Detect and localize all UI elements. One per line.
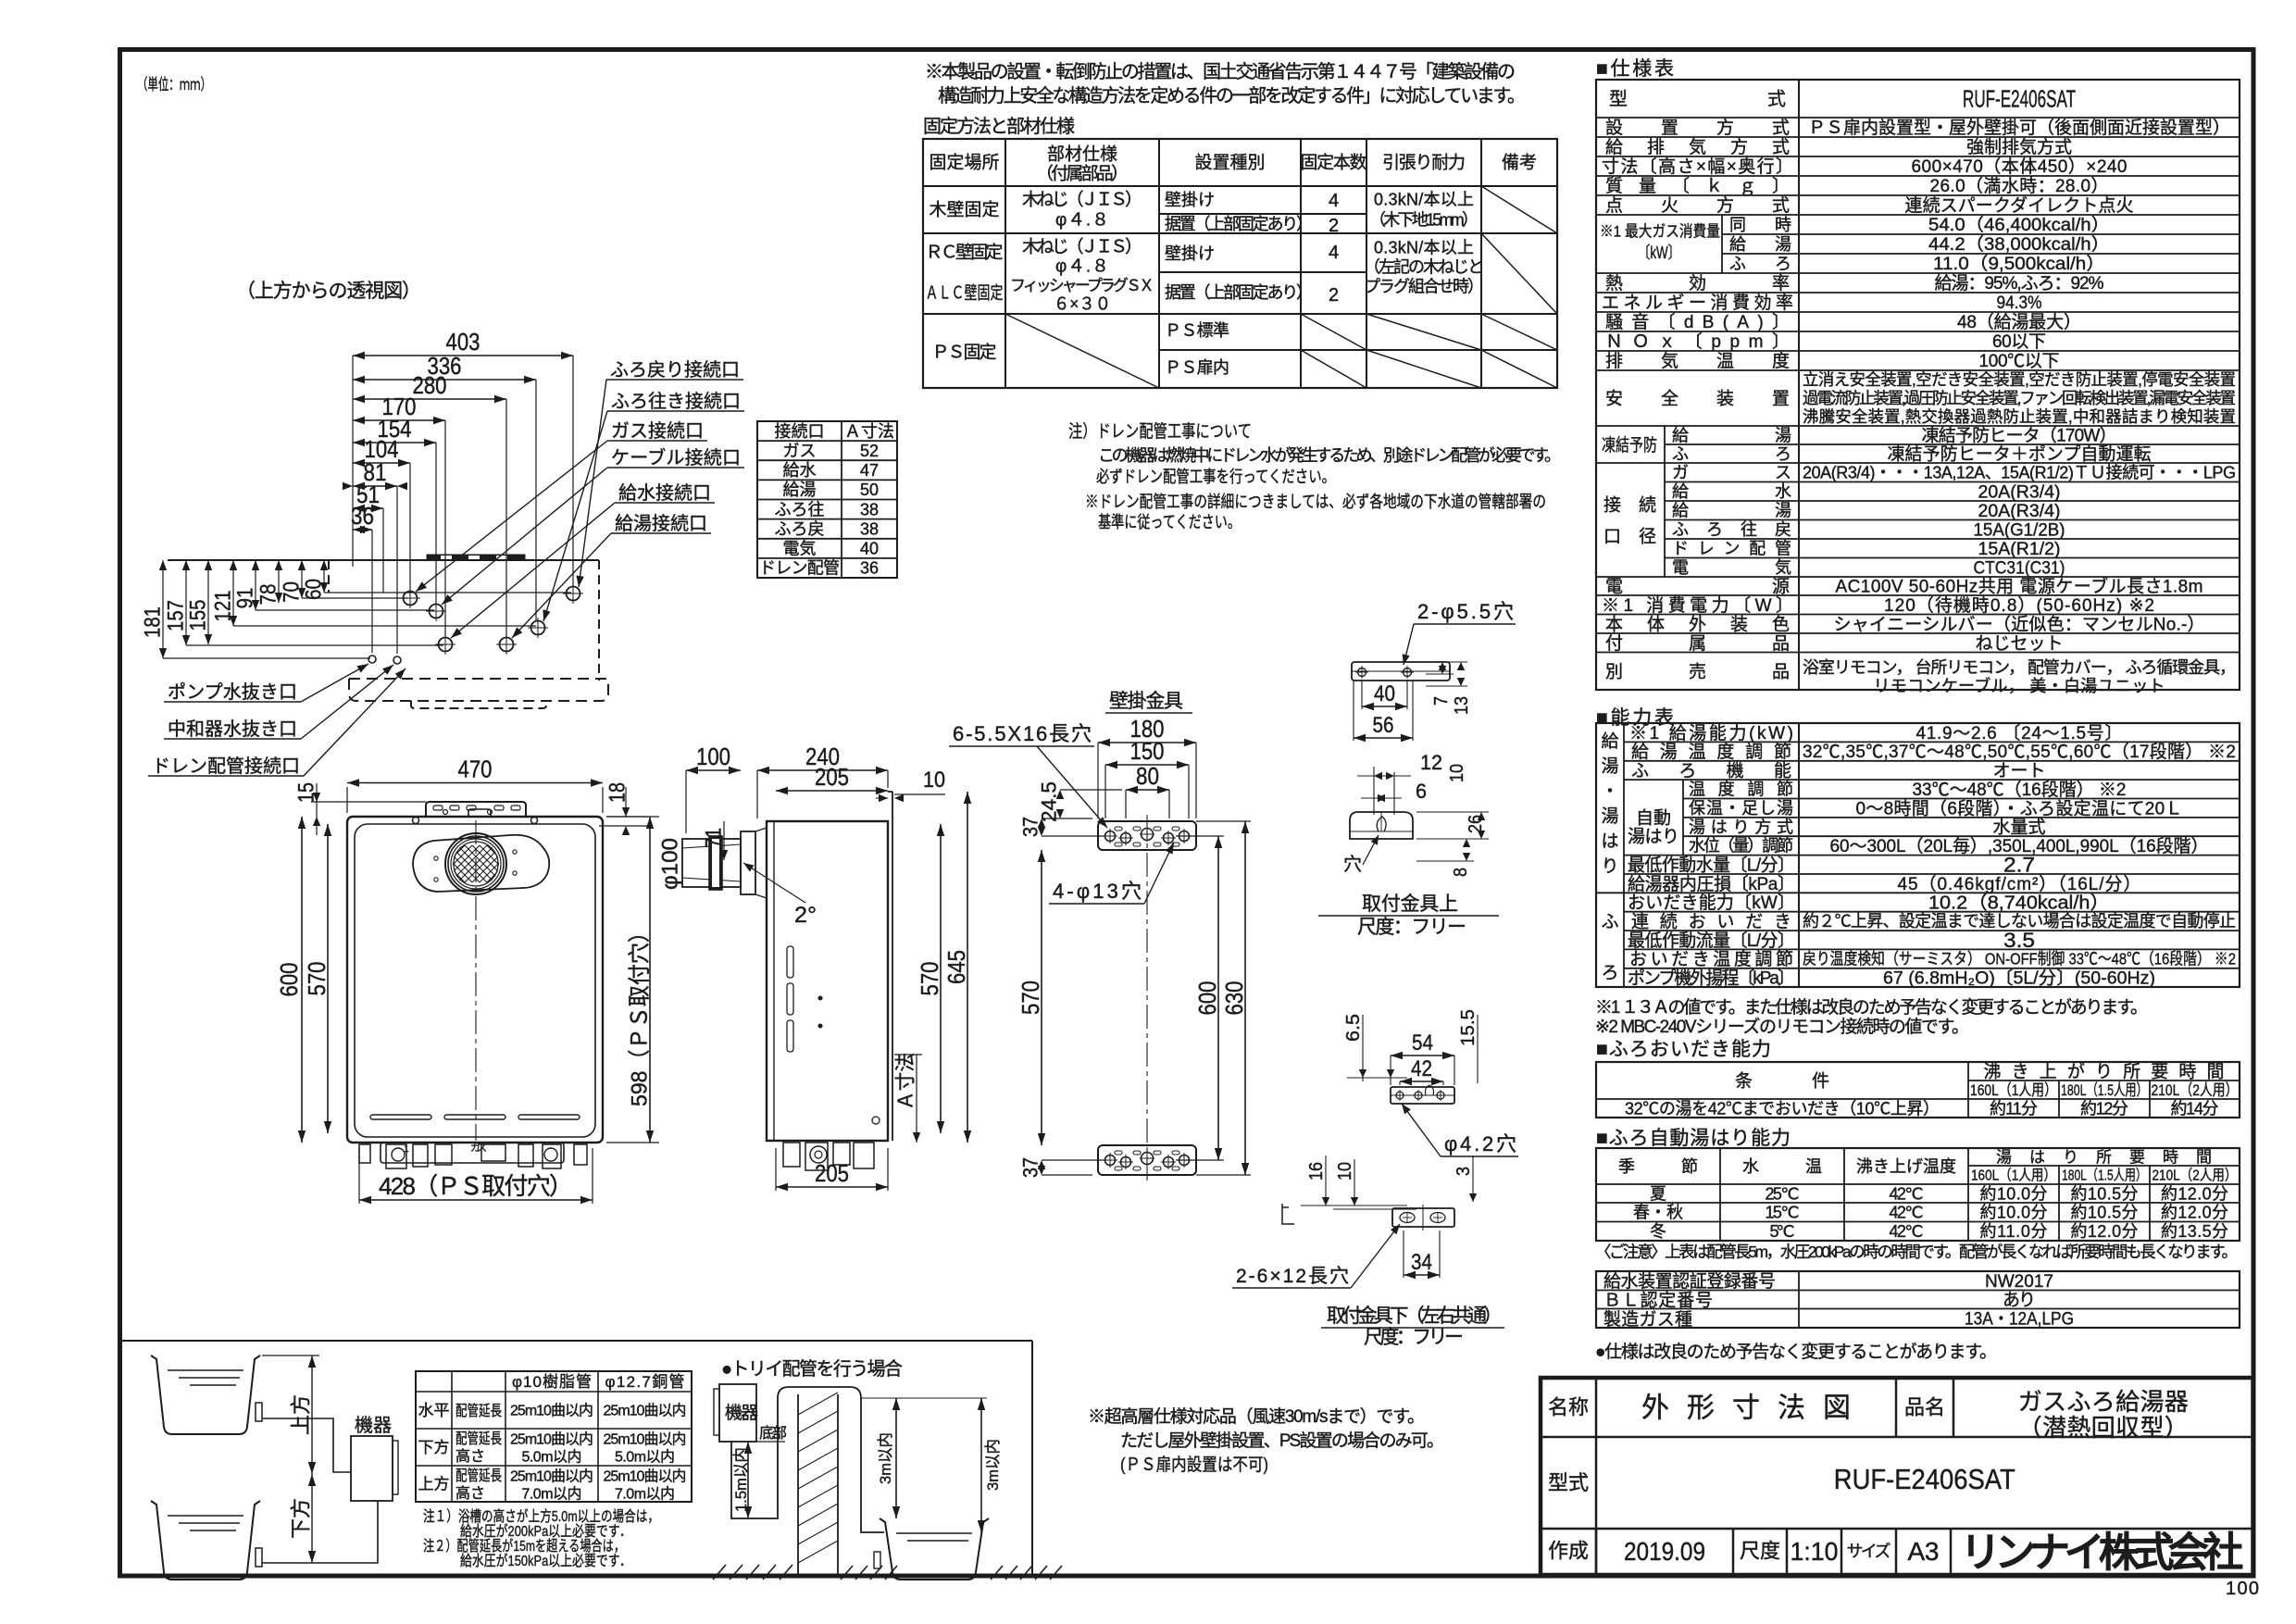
svg-text:94.3%: 94.3% (1997, 294, 2042, 313)
upper tub (上方) (151, 1355, 260, 1434)
svg-text:2: 2 (1329, 285, 1339, 306)
svg-text:設置種別: 設置種別 (1195, 153, 1266, 173)
svg-text:42℃: 42℃ (1890, 1222, 1924, 1241)
svg-text:〈ご注意〉上表は配管長5m，水圧200kPaの時の時間です。: 〈ご注意〉上表は配管長5m，水圧200kPaの時の時間です。配管が長くなれば所要… (1595, 1243, 2238, 1261)
svg-text:最低作動水量〔L/分〕: 最低作動水量〔L/分〕 (1628, 855, 1795, 875)
dim 8 (piece2) (1416, 860, 1474, 862)
svg-text:オート: オート (1993, 762, 2046, 781)
svg-text:温度調節: 温度調節 (1689, 781, 1793, 799)
horizontal dimension 104 (409, 463, 411, 592)
svg-text:給湯: 給湯 (783, 481, 817, 499)
svg-text:40: 40 (1374, 681, 1395, 706)
svg-text:47: 47 (860, 461, 879, 480)
wall bracket dim 180 (1097, 743, 1099, 818)
svg-text:電源: 電源 (1605, 577, 1790, 597)
svg-text:リンナイ株式会社: リンナイ株式会社 (1960, 1530, 2243, 1575)
svg-text:205: 205 (815, 1159, 849, 1187)
svg-text:48（給湯最大）: 48（給湯最大） (1957, 312, 2081, 332)
svg-text:15℃: 15℃ (1766, 1204, 1800, 1222)
svg-text:作成: 作成 (1548, 1540, 1589, 1563)
svg-text:570: 570 (303, 962, 331, 996)
svg-text:給水接続口: 給水接続口 (618, 482, 711, 504)
svg-text:沸騰安全装置,熱交換器過熱防止装置,中和器詰まり検知装置: 沸騰安全装置,熱交換器過熱防止装置,中和器詰まり検知装置 (1803, 407, 2236, 426)
wall bracket dim 37 bottom (1042, 1159, 1104, 1161)
svg-text:給湯温度調節: 給湯温度調節 (1631, 742, 1791, 762)
svg-text:ＰＳ扉内設置型・屋外壁掛可（後面側面近接設置型）: ＰＳ扉内設置型・屋外壁掛可（後面側面近接設置型） (1808, 118, 2230, 138)
svg-text:別売品: 別売品 (1605, 661, 1790, 681)
svg-text:ＲＣ壁固定: ＲＣ壁固定 (926, 243, 1004, 263)
svg-text:木壁固定: 木壁固定 (930, 200, 1000, 220)
svg-text:据置（上部固定あり）: 据置（上部固定あり） (1165, 215, 1313, 233)
upper fitting piece (取付金具上 part1) (1352, 662, 1450, 681)
svg-text:60以下: 60以下 (1992, 332, 2046, 352)
svg-text:約10.0分: 約10.0分 (1980, 1204, 2048, 1222)
svg-text:※1 １３Ａの値です。また仕様は改良のため予告なく変更するこ: ※1 １３Ａの値です。また仕様は改良のため予告なく変更することがあります。 (1595, 997, 2148, 1018)
svg-text:91: 91 (232, 588, 257, 609)
wall bracket bottom plate (1098, 1145, 1196, 1175)
svg-text:立消え安全装置,空だき安全装置,空だき防止装置,停電安全装置: 立消え安全装置,空だき安全装置,空だき防止装置,停電安全装置 (1803, 370, 2236, 389)
side dim 570 (A) (940, 824, 942, 1133)
svg-text:157: 157 (163, 600, 188, 631)
svg-text:38: 38 (860, 520, 879, 539)
svg-text:上方: 上方 (418, 1476, 450, 1493)
svg-text:37: 37 (1019, 1157, 1042, 1178)
three bottom slots (370, 1115, 431, 1119)
svg-text:外形寸法図: 外形寸法図 (1641, 1393, 1851, 1424)
svg-text:2-φ5.5穴: 2-φ5.5穴 (1417, 600, 1514, 623)
svg-text:構造耐力上安全な構造方法を定める件の一部を改定する件」に対応: 構造耐力上安全な構造方法を定める件の一部を改定する件」に対応しています。 (938, 85, 1526, 106)
svg-text:点火方式: 点火方式 (1605, 195, 1790, 216)
svg-text:2: 2 (1329, 216, 1339, 236)
svg-text:71: 71 (701, 828, 726, 848)
svg-text:給排気方式: 給排気方式 (1605, 137, 1790, 157)
connection ports (circles) (404, 592, 418, 606)
svg-text:ＰＳ標準: ＰＳ標準 (1165, 321, 1229, 340)
svg-text:42℃: 42℃ (1890, 1204, 1924, 1222)
svg-text:36: 36 (860, 559, 879, 578)
svg-text:保温・足し湯: 保温・足し湯 (1689, 799, 1793, 818)
svg-text:質量〔ｋｇ〕: 質量〔ｋｇ〕 (1605, 176, 1790, 196)
svg-text:固定方法と部材仕様: 固定方法と部材仕様 (923, 116, 1075, 137)
svg-text:70: 70 (279, 581, 304, 603)
wall bracket dim 24.5 (1060, 789, 1122, 791)
svg-text:あり: あり (2003, 1291, 2036, 1310)
svg-text:木ねじ（ＪＩＳ）: 木ねじ（ＪＩＳ） (1022, 190, 1142, 210)
svg-text:1: 1 (404, 1144, 409, 1155)
registration number table (1596, 1271, 2240, 1328)
svg-text:水量式: 水量式 (1993, 818, 2046, 838)
horizontal dimension 280 (505, 399, 507, 638)
dim 54 (1390, 1056, 1391, 1085)
dim 12 (piece2) (1373, 767, 1375, 815)
bottom section separator line (120, 1340, 1032, 1342)
svg-text:約11.0分: 約11.0分 (1980, 1222, 2048, 1241)
svg-text:配管延長: 配管延長 (455, 1403, 502, 1419)
svg-text:部材仕様: 部材仕様 (1047, 144, 1117, 165)
svg-text:0～8時間（6段階）・ふろ設定温にて20Ｌ: 0～8時間（6段階）・ふろ設定温にて20Ｌ (1856, 798, 2183, 818)
svg-text:り: り (1601, 857, 1618, 877)
svg-text:NW2017: NW2017 (1985, 1272, 2053, 1292)
svg-text:121: 121 (210, 591, 235, 622)
torii tub right (880, 1518, 989, 1580)
side view exhaust pipe (682, 839, 741, 887)
wall bracket dim 570 left (1041, 850, 1042, 1145)
svg-text:ケーブル接続口: ケーブル接続口 (611, 446, 741, 468)
svg-text:0.3kN/本以上: 0.3kN/本以上 (1374, 238, 1474, 256)
svg-text:ポンプ機外揚程〔kPa〕: ポンプ機外揚程〔kPa〕 (1628, 968, 1795, 989)
left vertical dimension stack 181/157/155/121/91/78/70/60 (162, 560, 164, 658)
horizontal dimension 170 (444, 420, 446, 638)
svg-text:10: 10 (923, 768, 945, 793)
svg-text:RUF-E2406SAT: RUF-E2406SAT (1834, 1463, 2015, 1495)
svg-text:80: 80 (1136, 762, 1159, 790)
svg-text:型式: 型式 (1548, 1471, 1589, 1494)
svg-text:54: 54 (1412, 1031, 1433, 1056)
extension lines from ports to left dims (163, 657, 370, 659)
svg-text:50: 50 (860, 481, 879, 499)
svg-text:約12分: 約12分 (2080, 1099, 2128, 1118)
svg-text:78: 78 (256, 584, 281, 606)
svg-text:10: 10 (1335, 1162, 1355, 1181)
svg-text:4-φ13穴: 4-φ13穴 (1053, 880, 1142, 903)
svg-text:湯はり方式: 湯はり方式 (1689, 818, 1793, 836)
front dim 570 (327, 824, 329, 1133)
svg-text:45（0.46kgf/cm²）（16L/分）: 45（0.46kgf/cm²）（16L/分） (1898, 874, 2141, 894)
svg-text:品名: 品名 (1904, 1396, 1945, 1419)
svg-text:ガス: ガス (1672, 464, 1791, 482)
svg-text:この機器は燃焼中にドレン水が発生するため、別途ドレン配管が必: この機器は燃焼中にドレン水が発生するため、別途ドレン配管が必要です。 (1098, 446, 1561, 465)
svg-text:4: 4 (1329, 243, 1339, 263)
svg-text:底部: 底部 (759, 1425, 787, 1442)
svg-text:ガス: ガス (783, 442, 817, 460)
svg-text:600: 600 (275, 963, 303, 997)
dim 42 (1399, 1081, 1401, 1085)
side view body (767, 821, 888, 1141)
svg-text:3m以内: 3m以内 (877, 1432, 894, 1484)
svg-text:●仕様は改良のため予告なく変更することがあります。: ●仕様は改良のため予告なく変更することがあります。 (1595, 1342, 1997, 1362)
svg-text:高さ: 高さ (455, 1448, 485, 1465)
pipe from upper tub to unit (262, 1418, 351, 1472)
svg-text:フィッシャープラグＳＸ: フィッシャープラグＳＸ (1010, 277, 1154, 294)
svg-text:38: 38 (860, 500, 879, 518)
svg-text:ふろ往戻: ふろ往戻 (1672, 520, 1791, 539)
svg-text:100℃以下: 100℃以下 (1979, 352, 2060, 371)
svg-text:52: 52 (860, 442, 879, 460)
lower piece 1 (1391, 1087, 1454, 1104)
svg-text:湯: 湯 (1601, 806, 1618, 827)
svg-text:注）ドレン配管工事について: 注）ドレン配管工事について (1068, 421, 1252, 442)
svg-text:ガス接続口: ガス接続口 (611, 420, 704, 442)
svg-text:600×470（本体450）×240: 600×470（本体450）×240 (1912, 156, 2128, 177)
svg-text:36: 36 (351, 502, 374, 530)
svg-text:高さ: 高さ (455, 1485, 485, 1502)
front top corner screws (413, 818, 419, 824)
horizontal dimension 81 (396, 486, 398, 654)
svg-text:径: 径 (1639, 527, 1656, 547)
svg-text:下方: 下方 (418, 1439, 450, 1456)
svg-text:〔kW〕: 〔kW〕 (1638, 244, 1680, 262)
bath auto-fill capacity table (1596, 1148, 2240, 1241)
svg-text:給: 給 (1601, 731, 1618, 752)
top view unit outline (dashed) (168, 559, 599, 561)
svg-text:ふろ機能: ふろ機能 (1631, 761, 1791, 781)
lower fitting piece (取付金具上 part2) (1350, 812, 1413, 839)
svg-text:戻り温度検知（サーミスタ） ON-OFF制御 33℃～4: 戻り温度検知（サーミスタ） ON-OFF制御 33℃～48℃（16段階） ※2 (1803, 950, 2236, 968)
svg-text:φ12.7銅管: φ12.7銅管 (605, 1373, 685, 1391)
horizontal dimension 154 (435, 443, 437, 605)
svg-text:必ずドレン配管工事を行ってください。: 必ずドレン配管工事を行ってください。 (1096, 468, 1335, 486)
svg-text:180L（1.5人用）: 180L（1.5人用） (2062, 1168, 2147, 1184)
svg-text:100: 100 (696, 743, 730, 770)
svg-text:25m10曲以内: 25m10曲以内 (510, 1403, 593, 1419)
svg-text:180L（1.5人用）: 180L（1.5人用） (2061, 1081, 2148, 1099)
svg-text:ただし屋外壁掛設置、PS設置の場合のみ可。: ただし屋外壁掛設置、PS設置の場合のみ可。 (1120, 1430, 1444, 1451)
svg-text:56: 56 (1373, 713, 1394, 738)
svg-text:※ドレン配管工事の詳細につきましては、必ず各地域の下水道の管: ※ドレン配管工事の詳細につきましては、必ず各地域の下水道の管轄部署の (1085, 493, 1546, 511)
svg-text:7.0m以内: 7.0m以内 (615, 1486, 675, 1503)
svg-text:湯はり: 湯はり (1628, 827, 1679, 847)
top mounting bracket (black) (427, 555, 525, 560)
svg-text:電気: 電気 (1672, 558, 1791, 577)
svg-text:給湯: 給湯 (1672, 426, 1791, 444)
lower tub (下方) (151, 1501, 260, 1580)
spec table 仕様表 (1596, 80, 2240, 690)
svg-text:60: 60 (301, 579, 326, 600)
svg-text:8: 8 (1451, 868, 1471, 877)
svg-text:６×３０: ６×３０ (1054, 295, 1111, 315)
svg-text:0.3kN/本以上: 0.3kN/本以上 (1374, 190, 1474, 208)
svg-text:給湯: 給湯 (1729, 235, 1791, 254)
svg-text:基準に従ってください。: 基準に従ってください。 (1098, 513, 1241, 531)
svg-text:湯はり所要時間: 湯はり所要時間 (1996, 1149, 2212, 1167)
svg-text:最低作動流量〔L/分〕: 最低作動流量〔L/分〕 (1628, 931, 1795, 951)
svg-text:67 (6.8mH₂O)〔5L/分〕(50-60Hz): 67 (6.8mH₂O)〔5L/分〕(50-60Hz) (1883, 968, 2155, 989)
svg-text:下方: 下方 (290, 1498, 313, 1539)
svg-text:注１）浴槽の高さが上方5.0m以上の場合は，: 注１）浴槽の高さが上方5.0m以上の場合は， (423, 1508, 659, 1525)
svg-text:湯: 湯 (1601, 756, 1618, 777)
svg-text:ドレン配管: ドレン配管 (1672, 540, 1791, 558)
svg-text:※2 MBC-240Vシリーズのリモコン接続時の値です。: ※2 MBC-240Vシリーズのリモコン接続時の値です。 (1595, 1017, 1969, 1037)
svg-text:付属品: 付属品 (1605, 633, 1790, 654)
svg-text:600: 600 (1193, 981, 1221, 1016)
svg-text:は: は (1601, 832, 1618, 852)
fan ornament outline (eye shape) (413, 835, 549, 892)
svg-text:水温: 水温 (1742, 1157, 1822, 1176)
svg-text:シャイニーシルバー（近似色：マンセルNo.-）: シャイニーシルバー（近似色：マンセルNo.-） (1834, 614, 2205, 634)
svg-text:280: 280 (413, 371, 447, 399)
svg-text:(ＰＳ扉内設置は不可): (ＰＳ扉内設置は不可) (1120, 1455, 1268, 1475)
svg-text:ふろ戻: ふろ戻 (775, 520, 825, 539)
svg-text:プラグ組合せ時）: プラグ組合せ時） (1364, 277, 1484, 295)
svg-text:安全装置: 安全装置 (1605, 389, 1790, 409)
svg-text:630: 630 (1220, 981, 1248, 1016)
front dim 598 PS取付穴 (606, 816, 659, 818)
svg-text:木ねじ（ＪＩＳ）: 木ねじ（ＪＩＳ） (1022, 237, 1142, 257)
svg-text:18: 18 (605, 782, 630, 803)
svg-text:※1 消費電力〔W〕: ※1 消費電力〔W〕 (1602, 595, 1793, 616)
side dim 71 (723, 821, 725, 860)
svg-text:季節: 季節 (1618, 1157, 1698, 1176)
side view bottom pipes (783, 1143, 800, 1167)
fan grill crosshatch (413, 845, 539, 882)
svg-text:570: 570 (1017, 981, 1044, 1015)
svg-text:尺度：フリー: 尺度：フリー (1357, 917, 1466, 938)
wall bracket dim 80 (1125, 790, 1127, 818)
dim 40 (piece1) (1361, 681, 1363, 709)
svg-text:ドレン配管接続口: ドレン配管接続口 (152, 756, 300, 777)
side view small dots (818, 996, 822, 1000)
svg-text:接: 接 (1603, 495, 1621, 516)
svg-text:配管延長: 配管延長 (455, 1430, 502, 1447)
svg-text:■仕様表: ■仕様表 (1596, 58, 1674, 80)
svg-text:尺度: 尺度 (1740, 1540, 1780, 1563)
arrows around lower piece1 (1387, 1069, 1394, 1078)
wall bracket dim 600 (1176, 835, 1224, 837)
svg-text:凍結予防ヒータ（170W）: 凍結予防ヒータ（170W） (1922, 426, 2117, 446)
svg-text:約12.0分: 約12.0分 (2161, 1204, 2228, 1222)
svg-text:5℃: 5℃ (1770, 1222, 1795, 1241)
wall bracket dim 150 (1104, 765, 1106, 818)
svg-text:598（ＰＳ取付穴）: 598（ＰＳ取付穴） (627, 921, 652, 1106)
wall bracket top plate (1098, 821, 1196, 850)
svg-text:25m10曲以内: 25m10曲以内 (510, 1468, 593, 1485)
svg-text:32℃,35℃,37℃～48℃,50℃,55℃,60℃（17: 32℃,35℃,37℃～48℃,50℃,55℃,60℃（17段階） ※2 (1803, 742, 2236, 762)
svg-text:おいだき能力〔kW〕: おいだき能力〔kW〕 (1628, 893, 1795, 913)
dim 26 (piece2) (1416, 811, 1489, 813)
svg-text:※超高層仕様対応品（風速30m/sまで）です。: ※超高層仕様対応品（風速30m/sまで）です。 (1088, 1406, 1425, 1427)
svg-text:A3: A3 (1908, 1537, 1940, 1566)
svg-text:給水圧が150kPa以上必要です．: 給水圧が150kPa以上必要です． (460, 1553, 631, 1569)
svg-text:φ10樹脂管: φ10樹脂管 (512, 1373, 592, 1391)
svg-text:Ａ寸法: Ａ寸法 (894, 1053, 917, 1110)
svg-text:約14分: 約14分 (2171, 1099, 2219, 1118)
svg-text:φ100: φ100 (657, 838, 682, 890)
svg-text:10.2（8,740kcal/h）: 10.2（8,740kcal/h） (1928, 893, 2110, 914)
svg-text:ふろ戻り接続口: ふろ戻り接続口 (610, 359, 740, 381)
svg-text:ねじセット: ねじセット (1976, 634, 2064, 654)
svg-text:排気温度: 排気温度 (1605, 351, 1790, 371)
svg-text:水位（量）調節: 水位（量）調節 (1689, 837, 1793, 856)
svg-text:160L（1人用）: 160L（1人用） (1970, 1081, 2057, 1099)
svg-text:壁掛金具: 壁掛金具 (1109, 691, 1183, 712)
front dim 470 (346, 787, 348, 813)
svg-text:20A(R3/4): 20A(R3/4) (1978, 482, 2061, 502)
front dim 15 (311, 801, 426, 803)
svg-text:ふろ往: ふろ往 (775, 500, 825, 518)
svg-text:注２）配管延長が15mを超える場合は，: 注２）配管延長が15mを超える場合は， (423, 1538, 625, 1555)
svg-text:120（待機時0.8）(50-60Hz) ※2: 120（待機時0.8）(50-60Hz) ※2 (1884, 595, 2154, 616)
svg-text:サイズ: サイズ (1847, 1542, 1891, 1560)
svg-text:おいだき温度調節: おいだき温度調節 (1629, 949, 1793, 969)
svg-text:給水: 給水 (783, 461, 817, 480)
svg-text:3.5: 3.5 (2003, 929, 2035, 952)
svg-text:設置方式: 設置方式 (1605, 118, 1790, 138)
wall bracket dim 37 top (1042, 818, 1092, 819)
dims 7 and 13 (piece1) (1426, 661, 1467, 663)
svg-text:機器: 機器 (355, 1415, 392, 1436)
svg-text:φ４.８: φ４.８ (1055, 257, 1109, 277)
dim 下方 (308, 1474, 316, 1486)
svg-text:機器: 機器 (725, 1403, 758, 1423)
svg-text:給水装置認証登録番号: 給水装置認証登録番号 (1603, 1271, 1776, 1292)
svg-text:・: ・ (1601, 782, 1618, 802)
svg-text:ＰＳ固定: ＰＳ固定 (932, 343, 997, 363)
svg-text:ガス: ガス (470, 1142, 487, 1154)
svg-text:181: 181 (140, 606, 165, 638)
svg-text:42: 42 (1411, 1056, 1432, 1081)
svg-text:給水圧が200kPa以上必要です．: 給水圧が200kPa以上必要です． (460, 1523, 631, 1540)
capacity table 能力表 (1596, 723, 2240, 987)
side dim 205 (776, 790, 888, 792)
svg-text:ガスふろ給湯器: ガスふろ給湯器 (2018, 1388, 2189, 1416)
side dim 10 (894, 793, 945, 795)
svg-text:2.7: 2.7 (2003, 854, 2035, 877)
svg-text:2-6×12長穴: 2-6×12長穴 (1236, 1266, 1349, 1287)
front bottom plate and pipe fittings (381, 1143, 564, 1163)
side dim 240 (756, 770, 758, 818)
svg-text:34: 34 (1411, 1250, 1432, 1275)
svg-text:エネルギー消費効率: エネルギー消費効率 (1602, 293, 1793, 313)
svg-text:（木下地15mm）: （木下地15mm） (1369, 210, 1479, 229)
svg-text:寸法〔高さ×幅×奥行〕: 寸法〔高さ×幅×奥行〕 (1602, 156, 1793, 177)
side view rear bracket plate (892, 792, 893, 1141)
svg-text:熱効率: 熱効率 (1605, 273, 1790, 294)
svg-text:42℃: 42℃ (1890, 1184, 1924, 1203)
svg-text:1:10: 1:10 (1791, 1537, 1839, 1566)
svg-text:ろ: ろ (1601, 964, 1618, 983)
side dim 645 (967, 792, 968, 1143)
wall bracket dim 630 (1196, 820, 1251, 822)
svg-text:33℃～48℃（16段階） ※2: 33℃～48℃（16段階） ※2 (1913, 780, 2127, 800)
svg-text:16: 16 (1306, 1162, 1327, 1181)
svg-text:夏: 夏 (1650, 1184, 1666, 1203)
svg-text:210L（2人用）: 210L（2人用） (2152, 1081, 2239, 1099)
svg-text:15A(G1/2B): 15A(G1/2B) (1974, 520, 2065, 540)
svg-text:2°: 2° (794, 903, 817, 928)
horizontal dimension 336 (535, 380, 537, 621)
svg-text:41.9～2.6 〔24～1.5号〕: 41.9～2.6 〔24～1.5号〕 (1916, 723, 2123, 743)
svg-text:26.0（満水時：28.0）: 26.0（満水時：28.0） (1930, 176, 2109, 196)
svg-text:製造ガス種: 製造ガス種 (1603, 1309, 1692, 1330)
svg-text:13A・12A,LPG: 13A・12A,LPG (1965, 1309, 2074, 1329)
fan grill circles (445, 833, 506, 894)
svg-text:穴: 穴 (1343, 854, 1362, 875)
svg-text:リモコンケーブル， 美・白湯ユニット: リモコンケーブル， 美・白湯ユニット (1874, 676, 2165, 695)
svg-text:AC100V 50-60Hz共用 電源ケーブル長さ1.8: AC100V 50-60Hz共用 電源ケーブル長さ1.8m (1836, 576, 2203, 597)
svg-text:取付金具上: 取付金具上 (1362, 893, 1458, 915)
svg-text:強制排気方式: 強制排気方式 (1966, 137, 2072, 157)
svg-text:6-5.5X16長穴: 6-5.5X16長穴 (953, 722, 1092, 745)
ground hatch marks (713, 1565, 792, 1580)
svg-text:205: 205 (815, 763, 849, 791)
svg-text:取付金具下（左右共通）: 取付金具下（左右共通） (1327, 1305, 1503, 1327)
svg-text:（単位：ｍｍ）: （単位：ｍｍ） (137, 76, 211, 94)
svg-text:5.0m以内: 5.0m以内 (615, 1449, 675, 1466)
svg-text:7.0m以内: 7.0m以内 (522, 1486, 582, 1503)
svg-text:13: 13 (1452, 696, 1472, 715)
connection size table 接続口/A寸法 (757, 421, 897, 578)
L mark (1282, 1204, 1294, 1224)
horizontal dimension 36 (371, 530, 373, 653)
svg-text:ＢＬ認定番号: ＢＬ認定番号 (1603, 1291, 1713, 1311)
svg-text:4: 4 (1329, 191, 1339, 211)
svg-text:沸き上がり所要時間: 沸き上がり所要時間 (1984, 1062, 2225, 1082)
svg-text:24.5: 24.5 (1038, 781, 1061, 822)
front dim 600 (301, 817, 303, 1143)
svg-text:約11分: 約11分 (1990, 1099, 2038, 1118)
svg-text:約10.0分: 約10.0分 (1980, 1184, 2048, 1203)
svg-text:ＰＳ扉内: ＰＳ扉内 (1165, 358, 1229, 377)
